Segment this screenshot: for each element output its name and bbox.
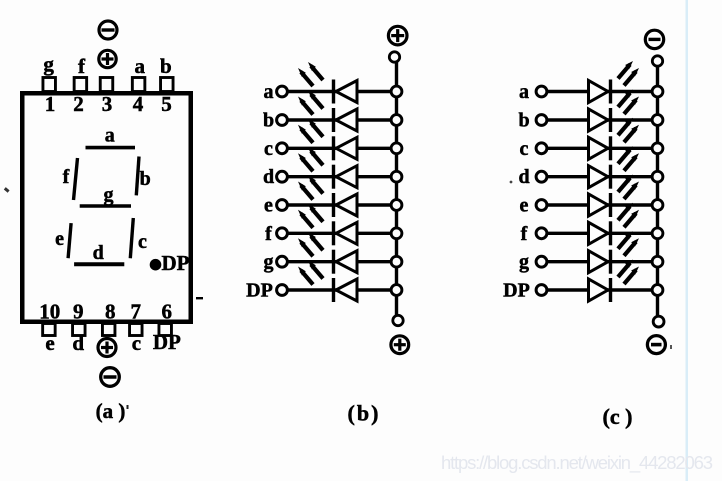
caption (c) [603,404,633,429]
svg-text:g: g [264,251,274,273]
LED e light-emission arrows (part c) [618,175,639,200]
pin 7 lead (bottom) [130,324,143,336]
pin 3 lead (top) [100,78,113,92]
segment a bar [86,146,136,150]
scan speck (left margin) [4,187,10,193]
svg-text:8: 8 [105,300,116,324]
segment g bar [80,204,131,208]
svg-text:3: 3 [102,92,113,116]
decimal point dot [150,259,162,271]
svg-text:a: a [105,125,115,147]
LED a light-emission arrows (part c) [618,61,639,86]
svg-text:d: d [263,166,274,188]
LED e (common-anode, cathode left) [334,193,358,217]
wire: segment g lead (part c) [547,260,654,263]
svg-text:DP: DP [246,280,273,302]
svg-text:c: c [138,231,147,253]
node: rail junction row e (part b) [391,200,402,211]
svg-text:e: e [264,195,273,217]
svg-text:2: 2 [73,92,84,116]
svg-text:e: e [55,228,64,250]
power symbol: plus supply (top of part b) [388,26,407,45]
svg-text:6: 6 [162,300,173,324]
svg-text:c: c [132,331,141,355]
segment g label [104,184,114,206]
pin label d (bottom of package) [72,331,84,355]
node: rail junction row g (part b) [391,256,402,267]
wire: segment d lead (part c) [547,175,654,178]
pin number 9 [73,300,84,324]
pin number 6 [162,300,173,324]
segment f bar [74,158,78,200]
LED f light-emission arrows (part c) [618,203,639,228]
LED DP light-emission arrows (part b) [298,261,323,285]
wire: segment a lead (part c) [547,90,654,93]
terminal label b (part c) [518,110,529,132]
wire: common-cathode bus (vertical rail, part c) [656,65,659,316]
terminal label e (part c) [520,195,529,217]
pin 9 lead (bottom) [73,324,86,336]
pin number 3 [102,92,113,116]
LED c (common-anode, cathode left) [334,136,358,160]
terminal c (part c) [536,143,547,154]
terminal label f (part b) [265,223,272,245]
LED b (common-cathode, anode left) [589,108,611,132]
terminal label c (part c) [520,138,529,160]
svg-text:f: f [78,54,86,78]
power symbol: plus supply (bottom of part b) [391,336,409,354]
wire: segment g lead (part b) [288,260,395,263]
terminal a (part b) [277,86,288,97]
node: rail junction row g (part c) [652,256,663,267]
node: rail junction row b (part c) [652,115,663,126]
svg-text:b: b [140,168,151,190]
terminal b (part c) [536,115,547,126]
svg-text:g: g [519,251,529,273]
scan speck (before d label, part c) [510,181,513,184]
svg-text:f: f [265,223,272,245]
terminal d (part b) [277,171,288,182]
terminal label d (part c) [518,166,529,188]
terminal label b (part b) [263,110,274,132]
wire: segment DP lead (part c) [547,288,654,291]
terminal g (part c) [536,256,547,267]
pin number 2 [73,92,84,116]
terminal d (part c) [536,171,547,182]
terminal DP (part b) [277,285,288,296]
segment e bar [68,223,71,258]
terminal e (part c) [536,200,547,211]
terminal label f (part c) [521,223,528,245]
svg-text:d: d [518,166,529,188]
pin label c (bottom of package) [132,331,141,355]
svg-text:a: a [519,81,529,103]
scan speck (right of bottom minus, part c) [670,345,672,349]
svg-text:d: d [72,331,84,355]
wire: segment b lead (part b) [288,118,395,121]
node: rail junction row b (part b) [391,115,402,126]
LED DP light-emission arrows (part c) [618,260,639,285]
LED d light-emission arrows (part c) [618,146,639,171]
wire: common-anode bus (vertical rail, part b) [395,61,398,316]
svg-text:e: e [45,331,54,355]
wire: segment a lead (part b) [288,90,395,93]
pin label f (top of package) [78,54,86,78]
decimal point label DP [162,251,190,275]
svg-text:(b): (b) [348,401,381,426]
LED a light-emission arrows (part b) [298,62,323,86]
svg-text:7: 7 [131,300,142,324]
node: rail junction row a (part b) [391,86,402,97]
LED b light-emission arrows (part b) [298,91,323,115]
pin number 1 [45,92,56,116]
terminal a (part c) [536,86,547,97]
node: rail junction row d (part c) [652,171,663,182]
terminal label DP (part b) [246,280,273,302]
svg-text:e: e [520,195,529,217]
display package outline [22,93,191,322]
LED c (common-cathode, anode left) [589,136,611,160]
pin label b (top of package) [160,54,172,78]
node: rail junction row c (part b) [391,143,402,154]
terminal b (part b) [277,115,288,126]
svg-text:b: b [263,110,274,132]
svg-text:9: 9 [73,300,84,324]
svg-text:1: 1 [45,92,56,116]
LED d (common-cathode, anode left) [589,165,611,189]
LED b light-emission arrows (part c) [618,90,639,115]
terminal DP (part c) [536,285,547,296]
LED f (common-anode, cathode left) [334,221,358,245]
pin number 8 [105,300,116,324]
power symbol: plus terminal (bottom of part a, pin 8 common) [98,339,116,357]
svg-text:(c ): (c ) [603,404,633,429]
caption (b) [348,401,381,426]
LED e (common-cathode, anode left) [589,193,611,217]
node: bottom of common-anode rail [393,315,403,325]
pin label g (top of package) [43,52,54,76]
wire: segment d lead (part b) [288,175,395,178]
LED DP (common-anode, cathode left) [334,278,358,302]
LED a (common-anode, cathode left) [334,80,358,104]
LED f (common-cathode, anode left) [589,221,611,245]
wire: segment c lead (part c) [547,147,654,150]
svg-text:b: b [518,110,529,132]
node: top of common-cathode rail [652,56,662,66]
segment c label [138,231,147,253]
terminal e (part b) [277,200,288,211]
node: rail junction row f (part b) [391,228,402,239]
pin 1 lead (top) [43,78,56,92]
pin 10 lead (bottom) [43,324,56,336]
svg-text:5: 5 [161,92,172,116]
terminal c (part b) [277,143,288,154]
scan speck after caption (a) [127,405,129,409]
node: rail junction row DP (part b) [391,285,402,296]
LED f light-emission arrows (part b) [298,204,323,228]
node: rail junction row c (part c) [652,143,663,154]
pin number 7 [131,300,142,324]
caption (a) [96,399,126,423]
LED c light-emission arrows (part c) [618,118,639,143]
pin number 5 [161,92,172,116]
terminal label a (part c) [519,81,529,103]
segment e label [55,228,64,250]
LED a (common-cathode, anode left) [589,80,611,104]
terminal f (part b) [277,228,288,239]
wire: segment c lead (part b) [288,147,395,150]
LED g (common-anode, cathode left) [334,250,358,274]
LED g light-emission arrows (part c) [618,231,639,256]
terminal label d (part b) [263,166,274,188]
segment d label [93,242,104,264]
wire: segment DP lead (part b) [288,288,395,291]
pin label a (top of package) [134,54,145,78]
wire: segment e lead (part b) [288,203,395,206]
svg-text:4: 4 [133,92,144,116]
scan artifact: faint blue vertical line [686,0,689,481]
svg-text:DP: DP [162,251,190,275]
LED DP (common-cathode, anode left) [589,278,611,302]
terminal label a (part b) [264,81,274,103]
terminal label c (part b) [264,138,273,160]
svg-text:c: c [520,138,529,160]
segment c bar [130,218,133,258]
power symbol: minus terminal (bottom of part a) [101,368,120,387]
scan speck (right of package) [196,297,203,299]
svg-text:d: d [93,242,104,264]
LED d (common-anode, cathode left) [334,165,358,189]
node: rail junction row DP (part c) [652,285,663,296]
pin 5 lead (top) [161,78,174,92]
svg-text:g: g [104,184,114,206]
terminal f (part c) [536,228,547,239]
terminal g (part b) [277,256,288,267]
LED c light-emission arrows (part b) [298,119,323,143]
svg-text:DP: DP [153,330,181,354]
watermark: blog URL [441,452,713,474]
power symbol: minus supply (bottom of part c) [647,336,665,354]
svg-text:DP: DP [503,280,530,302]
pin label e (bottom of package) [45,331,54,355]
pin 4 lead (top) [132,78,145,92]
svg-text:g: g [43,52,54,76]
power symbol: minus terminal (top of part a) [99,21,117,39]
LED d light-emission arrows (part b) [298,147,323,171]
segment b label [140,168,151,190]
wire: segment b lead (part c) [547,118,654,121]
segment b bar [136,157,139,196]
svg-text:b: b [160,54,172,78]
svg-text:c: c [264,138,273,160]
power symbol: minus supply (top of part c) [645,30,663,48]
segment a label [105,125,115,147]
svg-text:a: a [264,81,274,103]
node: rail junction row a (part c) [652,86,663,97]
pin label DP (bottom of package) [153,330,181,354]
wire: segment f lead (part b) [288,232,395,235]
node: bottom of common-cathode rail [653,316,664,327]
svg-text:a: a [134,54,145,78]
LED e light-emission arrows (part b) [298,176,323,200]
terminal label g (part c) [519,251,529,273]
svg-text:f: f [63,166,70,188]
pin 6 lead (bottom) [159,324,172,336]
pin 2 lead (top) [74,78,87,92]
svg-text:f: f [521,223,528,245]
pin 8 lead (bottom) [102,324,115,336]
svg-text:https://blog.csdn.net/weixin_4: https://blog.csdn.net/weixin_44282063 [441,452,713,474]
node: rail junction row f (part c) [652,228,663,239]
svg-text:(a ): (a ) [96,399,126,423]
segment d bar [74,262,124,266]
segment f label [63,166,70,188]
pin number 4 [133,92,144,116]
terminal label g (part b) [264,251,274,273]
power symbol: plus terminal (top of part a, pin 3 common) [99,50,116,67]
node: rail junction row e (part c) [652,200,663,211]
wire: segment f lead (part c) [547,232,654,235]
LED b (common-anode, cathode left) [334,108,358,132]
pin number 10 [39,300,60,324]
terminal label e (part b) [264,195,273,217]
svg-text:10: 10 [39,300,60,324]
terminal label DP (part c) [503,280,530,302]
LED g (common-cathode, anode left) [589,250,611,274]
node: rail junction row d (part b) [391,171,402,182]
node: top of common-anode rail [389,52,399,62]
LED g light-emission arrows (part b) [298,232,323,256]
wire: segment e lead (part c) [547,203,654,206]
